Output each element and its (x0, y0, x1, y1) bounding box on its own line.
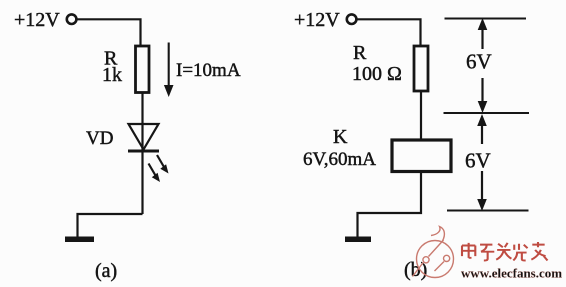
wire resistor to relay coil (420, 91, 422, 140)
svg-text:6V: 6V (465, 149, 491, 173)
relay coil K body (392, 140, 451, 172)
LED emission arrow 2 (149, 164, 161, 183)
svg-text:6V,60mA: 6V,60mA (303, 149, 376, 170)
svg-text:1k: 1k (102, 64, 122, 86)
svg-text:VD: VD (86, 128, 113, 149)
ground symbol (a) (65, 237, 94, 243)
watermark logo needle line (413, 240, 445, 277)
dimension arrow lower (6V across K) (477, 114, 487, 211)
ground symbol (b) (345, 237, 371, 243)
svg-text:(a): (a) (95, 260, 117, 282)
watermark logo small circle 1 (423, 257, 429, 263)
svg-text:+12V: +12V (294, 9, 340, 31)
svg-text:K: K (333, 126, 348, 148)
current arrow I (164, 43, 174, 98)
terminal circle (circuit b supply) (347, 14, 357, 24)
resistor R 1k body (136, 46, 150, 93)
dimension line middle (444, 112, 530, 114)
LED emission arrow 1 (157, 155, 169, 174)
resistor R 100ohm body (414, 46, 428, 91)
wire supply to resistor R (b) (356, 19, 420, 47)
terminal circle (circuit a supply) (67, 14, 77, 24)
watermark logo circle (413, 227, 454, 278)
wire resistor to LED and down (141, 93, 143, 215)
wire LED to ground (a) (78, 214, 143, 237)
watermark logo flag (431, 227, 444, 242)
LED cathode bar (128, 150, 159, 153)
wire relay to ground (b) (358, 172, 422, 238)
svg-text:I=10mA: I=10mA (176, 60, 241, 81)
svg-text:www.elecfans.com: www.elecfans.com (461, 266, 562, 281)
dimension line bottom (447, 210, 529, 212)
dimension arrow upper (6V across R) (478, 18, 488, 113)
svg-text:6V: 6V (466, 50, 492, 74)
LED VD triangle (129, 124, 159, 150)
svg-text:+12V: +12V (14, 9, 60, 31)
watermark logo small circle 2 (444, 255, 450, 261)
dimension line top (445, 18, 527, 20)
svg-text:100 Ω: 100 Ω (352, 63, 402, 85)
wire supply to resistor R (a) (76, 19, 140, 47)
watermark chinese text (462, 242, 548, 260)
svg-text:R: R (353, 42, 367, 64)
